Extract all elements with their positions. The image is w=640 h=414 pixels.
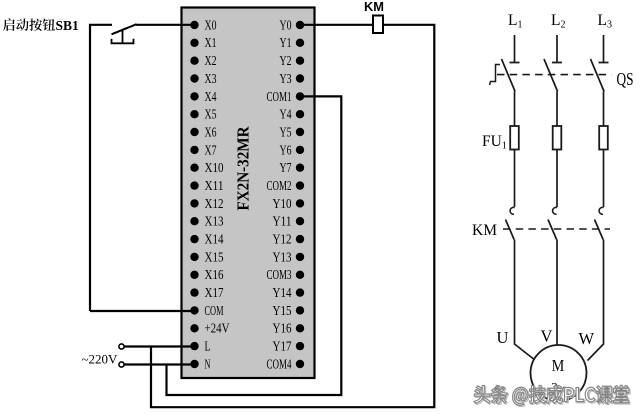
wire N terminal <box>124 363 194 365</box>
terminal Y15 pin dot <box>296 306 304 314</box>
svg-text:W: W <box>579 329 595 348</box>
terminal X11 pin dot <box>190 181 198 189</box>
svg-text:Y4: Y4 <box>280 107 292 122</box>
terminal X5 pin dot <box>190 110 198 118</box>
svg-text:QS: QS <box>617 69 634 89</box>
terminal +24V pin dot <box>190 324 198 332</box>
pushbutton SB1 actuator rod <box>122 30 124 43</box>
svg-text:COM4: COM4 <box>267 356 292 371</box>
svg-text:V: V <box>541 327 553 346</box>
terminal N pin dot <box>190 360 198 368</box>
terminal Y11 pin dot <box>296 217 304 225</box>
svg-text:X6: X6 <box>205 124 217 139</box>
terminal X16 pin dot <box>190 271 198 279</box>
fuse FU1 pole 3 <box>599 126 608 150</box>
terminal X10 pin dot <box>190 164 198 172</box>
svg-text:Y5: Y5 <box>280 124 292 139</box>
wire FU to KM contact pole 2 <box>556 150 558 208</box>
KM linkage dashed line <box>503 228 610 230</box>
wire X0 to button SB1 right lead <box>136 24 195 26</box>
svg-text:Y7: Y7 <box>280 160 292 175</box>
label 启动按钮 (start button) <box>3 18 55 31</box>
terminal X7 pin dot <box>190 146 198 154</box>
svg-text:M: M <box>552 356 565 375</box>
svg-text:Y16: Y16 <box>273 321 292 336</box>
PLC module FX2N-32MR body <box>182 8 315 379</box>
L1 feeder wire <box>510 35 520 63</box>
svg-text:X13: X13 <box>205 214 224 229</box>
svg-text:X1: X1 <box>205 35 217 50</box>
pushbutton SB1 blade <box>112 24 137 34</box>
svg-text:COM: COM <box>205 303 224 318</box>
svg-text:X15: X15 <box>205 249 224 264</box>
svg-text:X2: X2 <box>205 53 217 68</box>
L3 feeder wire <box>599 35 609 63</box>
terminal COM pin dot <box>190 306 198 314</box>
QS linkage dashed line <box>497 74 612 76</box>
terminal COM2 pin dot <box>296 181 304 189</box>
svg-text:Y1: Y1 <box>280 35 292 50</box>
QS pole 2 blade <box>544 59 558 92</box>
contactor coil KM <box>373 16 383 34</box>
terminal X4 pin dot <box>190 92 198 100</box>
svg-text:Y10: Y10 <box>273 196 292 211</box>
wire FU to KM contact pole 1 <box>514 150 516 208</box>
terminal Y6 pin dot <box>296 146 304 154</box>
svg-text:N: N <box>205 356 211 371</box>
wire L terminal <box>124 345 194 347</box>
motor M circle <box>531 345 587 401</box>
terminal Y16 pin dot <box>296 324 304 332</box>
terminal X14 pin dot <box>190 235 198 243</box>
svg-text:Y3: Y3 <box>280 71 292 86</box>
svg-text:Y15: Y15 <box>273 303 292 318</box>
terminal X15 pin dot <box>190 253 198 261</box>
svg-text:X16: X16 <box>205 267 224 282</box>
KM main contact blade pole 2 <box>548 220 557 240</box>
terminal COM1 pin dot <box>296 92 304 100</box>
svg-text:X5: X5 <box>205 107 217 122</box>
terminal X2 pin dot <box>190 57 198 65</box>
svg-text:Y17: Y17 <box>273 339 292 354</box>
wire KM to motor U phase <box>515 240 536 361</box>
wire FU to KM contact pole 3 <box>603 150 605 208</box>
svg-text:+24V: +24V <box>205 321 230 336</box>
QS pole 1 blade <box>502 59 516 92</box>
QS operating handle <box>490 65 500 86</box>
wire KM to motor V phase <box>556 240 558 347</box>
terminal X17 pin dot <box>190 288 198 296</box>
terminal Y10 pin dot <box>296 199 304 207</box>
svg-text:X0: X0 <box>205 17 217 32</box>
svg-text:Y14: Y14 <box>273 285 292 300</box>
KM main contact blade pole 1 <box>506 220 515 240</box>
terminal X13 pin dot <box>190 217 198 225</box>
svg-text:COM1: COM1 <box>267 89 292 104</box>
terminal COM3 pin dot <box>296 271 304 279</box>
svg-text:COM3: COM3 <box>267 267 292 282</box>
svg-text:~220V: ~220V <box>82 352 119 367</box>
svg-text:X11: X11 <box>205 178 224 193</box>
svg-text:Y2: Y2 <box>280 53 292 68</box>
terminal Y14 pin dot <box>296 288 304 296</box>
terminal Y13 pin dot <box>296 253 304 261</box>
wire COM1 loop to N <box>167 96 342 395</box>
wire Y0 to KM coil and right drop <box>151 25 434 407</box>
terminal X6 pin dot <box>190 128 198 136</box>
svg-text:FX2N-32MR: FX2N-32MR <box>234 126 253 211</box>
terminal Y7 pin dot <box>296 164 304 172</box>
svg-text:COM2: COM2 <box>267 178 292 193</box>
supply terminal N circle <box>119 362 124 367</box>
KM main contact blade pole 3 <box>595 220 604 240</box>
svg-text:X4: X4 <box>205 89 217 104</box>
wire QS to FU pole 3 <box>603 92 605 127</box>
terminal Y12 pin dot <box>296 235 304 243</box>
svg-text:KM: KM <box>472 222 497 239</box>
svg-text:Y0: Y0 <box>280 17 292 32</box>
wire SB1 down to COM <box>90 310 195 312</box>
terminal Y0 pin dot <box>296 21 304 29</box>
svg-text:SB1: SB1 <box>56 18 80 33</box>
svg-text:X17: X17 <box>205 285 224 300</box>
terminal Y5 pin dot <box>296 128 304 136</box>
watermark 头条@技成PLC课堂 shadow <box>475 387 630 407</box>
terminal Y17 pin dot <box>296 342 304 350</box>
terminal X1 pin dot <box>190 39 198 47</box>
svg-text:X14: X14 <box>205 232 224 247</box>
terminal L pin dot <box>190 342 198 350</box>
fuse FU1 pole 1 <box>510 126 519 150</box>
QS pole 3 blade <box>591 59 605 92</box>
terminal X3 pin dot <box>190 74 198 82</box>
KM main contact arc pole 3 <box>599 207 603 214</box>
wire button SB1 left lead <box>90 25 112 311</box>
terminal X0 pin dot <box>190 21 198 29</box>
terminal Y3 pin dot <box>296 74 304 82</box>
svg-text:X10: X10 <box>205 160 224 175</box>
pushbutton SB1 actuator cap <box>112 39 134 44</box>
terminal Y2 pin dot <box>296 57 304 65</box>
svg-text:X3: X3 <box>205 71 217 86</box>
watermark 头条@技成PLC课堂 <box>474 385 629 405</box>
wire QS to FU pole 1 <box>514 92 516 127</box>
wire QS to FU pole 2 <box>556 92 558 127</box>
terminal COM4 pin dot <box>296 360 304 368</box>
KM main contact arc pole 2 <box>553 207 557 214</box>
svg-text:Y12: Y12 <box>273 232 292 247</box>
fuse FU1 pole 2 <box>553 126 562 150</box>
terminal Y4 pin dot <box>296 110 304 118</box>
terminal X12 pin dot <box>190 199 198 207</box>
svg-text:Y6: Y6 <box>280 142 292 157</box>
supply terminal L circle <box>119 344 124 349</box>
terminal Y1 pin dot <box>296 39 304 47</box>
wire KM to motor W phase <box>588 240 604 361</box>
svg-text:X12: X12 <box>205 196 224 211</box>
L2 feeder wire <box>552 35 562 63</box>
svg-text:U: U <box>497 328 509 347</box>
svg-text:Y13: Y13 <box>273 249 292 264</box>
KM main contact arc pole 1 <box>510 207 514 214</box>
svg-text:Y11: Y11 <box>273 214 292 229</box>
svg-text:L: L <box>205 339 211 354</box>
svg-text:KM: KM <box>364 0 384 14</box>
svg-text:X7: X7 <box>205 142 217 157</box>
